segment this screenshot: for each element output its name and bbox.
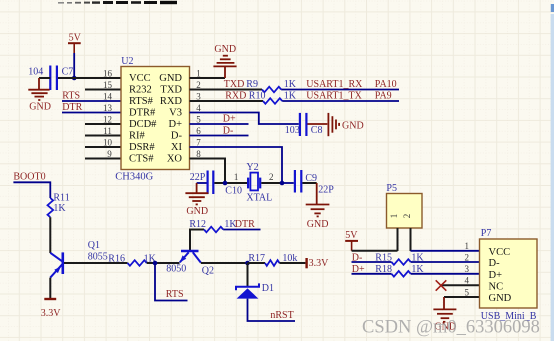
svg-text:USART1_RX: USART1_RX: [306, 79, 363, 90]
diode D1 (zener): [236, 283, 259, 298]
svg-text:R12: R12: [189, 219, 206, 230]
svg-text:3: 3: [465, 264, 470, 274]
svg-text:U2: U2: [121, 56, 133, 67]
wire to net DTR: [223, 229, 260, 231]
resistor R11: [48, 198, 54, 217]
resistor R17: [265, 260, 279, 266]
svg-text:R15: R15: [375, 252, 392, 263]
resistor R12: [204, 227, 223, 233]
svg-text:1: 1: [196, 68, 201, 78]
wire D+ to R18: [352, 273, 392, 275]
op-amp U2 CH340G body: [121, 67, 190, 170]
svg-text:XO: XO: [167, 154, 183, 165]
wire R11 to Q1 collector: [49, 217, 51, 253]
svg-text:USART1_TX: USART1_TX: [306, 91, 362, 102]
junction node XO: [223, 181, 228, 186]
svg-text:1K: 1K: [53, 203, 66, 214]
resistor R10: [263, 98, 282, 104]
svg-text:R18: R18: [375, 264, 392, 275]
svg-text:P5: P5: [386, 183, 397, 194]
svg-text:D-: D-: [489, 258, 501, 269]
svg-text:GND: GND: [214, 44, 236, 55]
pin 9 stub: [85, 158, 121, 160]
svg-text:VCC: VCC: [129, 73, 151, 84]
svg-text:12: 12: [103, 114, 112, 124]
svg-text:3: 3: [196, 91, 201, 101]
resistor R18: [392, 271, 411, 277]
capacitor C8: [300, 113, 307, 136]
svg-text:C8: C8: [311, 125, 323, 136]
svg-text:D-: D-: [223, 126, 234, 137]
svg-text:R9: R9: [246, 79, 258, 90]
wire D- to R15: [352, 261, 392, 263]
svg-text:22P: 22P: [190, 172, 206, 183]
ground GND (below C7): [28, 78, 49, 100]
wire to net RTS: [155, 263, 188, 301]
capacitor C9: [295, 170, 301, 193]
pin 12 stub: [85, 123, 121, 125]
connector P5: [387, 194, 423, 229]
scrollbar strip right edge: [551, 14, 554, 341]
svg-text:Y2: Y2: [246, 162, 258, 173]
svg-text:D+: D+: [223, 114, 236, 125]
capacitor C10: [208, 171, 214, 195]
wire pin3 RXD: [190, 100, 264, 102]
resistor R16: [128, 260, 147, 266]
crystal Y2: [248, 173, 260, 191]
svg-text:4: 4: [196, 103, 201, 113]
svg-text:2: 2: [196, 80, 201, 90]
wire P7 pin4 NC: [441, 284, 480, 286]
svg-text:RTS#: RTS#: [129, 96, 154, 107]
pin6 D- stub: [190, 135, 249, 137]
svg-text:8050: 8050: [166, 264, 186, 275]
svg-text:Q2: Q2: [202, 266, 214, 277]
power 5V (top left): [68, 32, 82, 53]
wire USART1_RX: [281, 89, 399, 91]
svg-text:103: 103: [285, 125, 300, 136]
wire P5 pin1: [397, 228, 399, 251]
ground GND (above pin1): [213, 56, 236, 78]
svg-text:5: 5: [465, 287, 470, 297]
wire junction to C9: [282, 182, 294, 184]
svg-text:GND: GND: [342, 120, 364, 131]
wire C7 to ground: [39, 77, 50, 79]
svg-text:9: 9: [107, 149, 112, 159]
svg-text:8: 8: [196, 149, 201, 159]
pin 11 stub: [85, 135, 121, 137]
svg-text:nRST: nRST: [270, 310, 293, 321]
svg-text:TXD: TXD: [160, 85, 182, 96]
svg-text:GND: GND: [307, 219, 329, 230]
wire pin4 V3 to C8: [190, 113, 299, 125]
svg-text:16: 16: [103, 68, 113, 78]
svg-text:15: 15: [103, 80, 113, 90]
svg-text:DTR#: DTR#: [129, 108, 156, 119]
junction node XI: [280, 181, 285, 186]
svg-text:2: 2: [465, 252, 470, 262]
power 3.3V (Q1 emitter): [44, 298, 56, 300]
svg-text:PA9: PA9: [375, 91, 392, 102]
svg-text:Q1: Q1: [88, 240, 100, 251]
wire pin16 VCC: [57, 77, 121, 79]
wire P5 pin2 to P7 pin1: [411, 250, 480, 252]
wire R16 to Q2 emitter: [147, 262, 180, 264]
svg-text:P7: P7: [481, 228, 492, 239]
wire P7 pin5 GND: [444, 296, 480, 298]
svg-text:D+: D+: [489, 270, 503, 281]
svg-text:C10: C10: [225, 185, 242, 196]
wire C9 to ground: [302, 182, 316, 184]
svg-text:11: 11: [103, 126, 112, 136]
svg-text:CSDN @m0_63306098: CSDN @m0_63306098: [362, 318, 540, 338]
svg-text:DTR: DTR: [62, 102, 82, 113]
svg-text:1: 1: [389, 214, 399, 219]
wire pin2 TXD: [190, 89, 263, 91]
svg-text:DSR#: DSR#: [129, 142, 155, 153]
wire R12/DTR: [190, 230, 204, 251]
svg-text:5V: 5V: [345, 230, 358, 241]
ground GND (right of C8): [328, 113, 339, 136]
svg-text:XTAL: XTAL: [246, 192, 272, 203]
svg-text:R10: R10: [249, 91, 266, 102]
svg-text:8055: 8055: [88, 252, 108, 263]
svg-text:7: 7: [196, 137, 201, 147]
capacitor C7: [50, 66, 57, 91]
pin 10 stub: [85, 146, 121, 148]
svg-text:R232: R232: [129, 85, 152, 96]
wire Q2 collector to R17 node: [201, 262, 248, 264]
svg-text:DTR: DTR: [235, 219, 255, 230]
svg-text:CH340G: CH340G: [115, 172, 153, 183]
svg-text:NC: NC: [489, 282, 504, 293]
svg-text:1: 1: [234, 172, 239, 182]
svg-text:V3: V3: [169, 108, 182, 119]
U2 right pin names: [159, 73, 182, 165]
U2 left pin numbers: [103, 68, 113, 159]
U2 left pin names: [129, 73, 157, 165]
svg-text:RI#: RI#: [129, 131, 146, 142]
svg-text:VCC: VCC: [489, 247, 511, 258]
svg-text:2: 2: [269, 172, 274, 182]
wire DTR to pin13: [62, 112, 121, 114]
wire C10 to crystal: [214, 182, 247, 184]
svg-text:C7: C7: [62, 67, 74, 78]
svg-text:22P: 22P: [318, 184, 334, 195]
svg-text:D+: D+: [168, 119, 182, 130]
junction node RTS: [153, 261, 158, 266]
svg-text:1K: 1K: [284, 79, 297, 90]
svg-text:D-: D-: [171, 131, 183, 142]
wire RTS to pin14: [62, 100, 121, 102]
wire pin1 to ground: [190, 77, 226, 79]
svg-text:XI: XI: [171, 142, 183, 153]
svg-text:2: 2: [402, 214, 412, 219]
resistor R9: [262, 87, 281, 93]
power 5V (bottom): [345, 230, 358, 251]
ground GND (below C10): [185, 183, 208, 204]
ground GND (below C9): [306, 183, 330, 216]
svg-text:BOOT0: BOOT0: [13, 171, 45, 182]
wire USART1_TX: [282, 100, 399, 102]
transistor Q2: [180, 251, 201, 263]
P7 pin names: [489, 247, 512, 304]
svg-text:5: 5: [196, 114, 201, 124]
svg-text:1K: 1K: [284, 91, 297, 102]
wire R17 to 3.3V: [279, 262, 305, 264]
wire Q1 base to R16: [64, 262, 128, 264]
wire C10 left to ground: [197, 182, 207, 184]
wire 5V to VCC node: [73, 53, 75, 78]
svg-text:DCD#: DCD#: [129, 119, 157, 130]
power 3.3V (R17): [305, 258, 307, 268]
svg-text:GND: GND: [159, 73, 182, 84]
svg-text:RTS: RTS: [166, 289, 184, 300]
svg-text:PA10: PA10: [375, 79, 397, 90]
svg-text:R16: R16: [108, 253, 125, 264]
svg-text:RXD: RXD: [160, 96, 183, 107]
junction node nRST: [245, 261, 250, 266]
pin 15 stub: [85, 89, 121, 91]
junction VCC node: [72, 76, 77, 81]
connector P7 USB Mini-B: [480, 239, 538, 308]
cropped page title text (bottom sliver): [58, 1, 177, 4]
svg-text:14: 14: [103, 91, 113, 101]
wire BOOT0: [13, 182, 50, 198]
U2 right pin numbers: [196, 68, 201, 159]
svg-text:1: 1: [465, 241, 470, 251]
no-connect X: [436, 280, 447, 290]
resistor R15: [392, 259, 411, 265]
svg-text:GND: GND: [29, 102, 51, 113]
wire R18 to P7 pin3: [411, 273, 480, 275]
svg-text:GND: GND: [186, 206, 208, 217]
wire pin7 XI to crystal: [190, 147, 283, 181]
wire R15 to P7 pin2: [411, 261, 480, 263]
wire node to D1: [247, 263, 249, 287]
wire crystal to junction: [261, 182, 282, 184]
svg-text:GND: GND: [489, 293, 512, 304]
svg-text:5V: 5V: [69, 32, 82, 43]
svg-text:10: 10: [103, 137, 113, 147]
wire P5 pin2: [410, 228, 412, 251]
wire C8 to ground: [308, 123, 328, 125]
svg-text:3.3V: 3.3V: [309, 258, 330, 269]
svg-text:3.3V: 3.3V: [41, 308, 62, 319]
svg-text:RTS: RTS: [62, 91, 80, 102]
wire node to R17: [248, 262, 266, 264]
svg-text:6: 6: [196, 126, 201, 136]
wire D1 to nRST: [248, 299, 296, 321]
wire 5V to P5 pin1: [352, 250, 398, 252]
pin5 D+ stub: [190, 123, 249, 125]
svg-text:RXD: RXD: [225, 91, 246, 102]
svg-text:4: 4: [465, 276, 470, 286]
svg-text:CTS#: CTS#: [129, 154, 154, 165]
svg-text:D1: D1: [262, 283, 274, 294]
ground GND (below P7): [433, 297, 456, 322]
wire Q1 emitter to 3.3V: [49, 278, 51, 298]
P7 pin numbers: [465, 241, 470, 297]
svg-text:104: 104: [28, 67, 43, 78]
svg-text:TXD: TXD: [224, 79, 245, 90]
svg-text:13: 13: [103, 103, 113, 113]
transistor Q1: [50, 252, 63, 277]
wire pin8 XO to crystal: [190, 159, 226, 182]
